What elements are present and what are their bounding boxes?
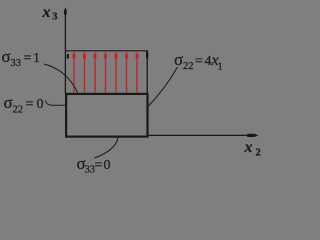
svg-text:2: 2 <box>256 148 261 159</box>
block rectangle <box>66 94 147 137</box>
svg-text:=: = <box>95 158 103 173</box>
svg-text:33: 33 <box>11 58 22 69</box>
leader from sigma33=0 to bottom face <box>95 138 119 159</box>
load envelope left end tick <box>67 54 69 59</box>
svg-text:σ: σ <box>4 93 13 112</box>
red load arrow 6 <box>125 52 128 93</box>
svg-text:σ: σ <box>174 50 183 69</box>
red load arrow 5 <box>115 52 118 93</box>
red load arrow 1 <box>73 52 76 93</box>
leader from sigma22=0 to left face <box>46 101 66 106</box>
x3 axis <box>64 7 67 93</box>
svg-text:1: 1 <box>218 62 223 73</box>
svg-text:=: = <box>24 51 32 66</box>
svg-text:33: 33 <box>85 165 96 176</box>
red load arrow 3 <box>94 52 97 93</box>
svg-text:=: = <box>26 97 34 112</box>
label sigma33 = 1 <box>2 47 41 69</box>
svg-text:3: 3 <box>52 12 57 23</box>
svg-text:x: x <box>244 139 253 156</box>
label sigma33 = 0 (bottom) <box>77 154 111 176</box>
svg-text:22: 22 <box>13 105 24 116</box>
x2 axis label <box>244 139 261 159</box>
load envelope right end tick <box>146 52 148 59</box>
label sigma22 = 0 (left) <box>4 93 44 116</box>
red load arrow 4 <box>104 52 107 93</box>
label sigma22 = 4x1 (right) <box>174 50 223 73</box>
load envelope top line <box>65 50 148 52</box>
svg-text:0: 0 <box>104 158 111 173</box>
svg-text:σ: σ <box>2 47 11 66</box>
red load arrow 7 <box>136 52 139 93</box>
leader from sigma22=4x1 to right face <box>149 67 178 106</box>
load envelope right boundary line <box>146 51 148 94</box>
svg-text:4: 4 <box>205 54 212 69</box>
x3 axis label <box>42 4 58 23</box>
leader from sigma33=1 to top face <box>44 64 78 93</box>
red load arrow 2 <box>83 52 86 93</box>
svg-text:0: 0 <box>37 97 44 112</box>
svg-text:1: 1 <box>33 51 40 66</box>
svg-text:=: = <box>195 54 203 69</box>
svg-text:22: 22 <box>183 61 194 72</box>
x2 axis <box>149 134 259 137</box>
svg-text:x: x <box>42 4 51 21</box>
